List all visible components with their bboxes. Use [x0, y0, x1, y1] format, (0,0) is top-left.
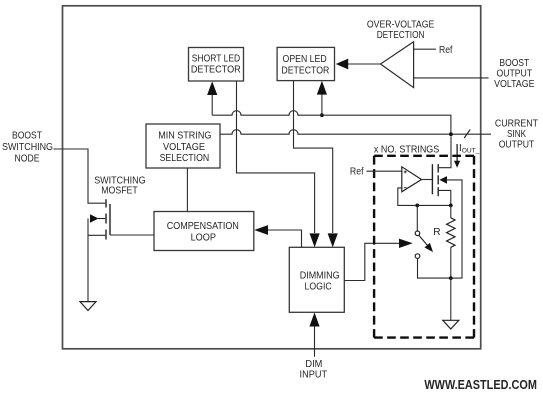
- svg-text:BOOST: BOOST: [499, 58, 529, 69]
- node sense node dots: [415, 204, 419, 208]
- svg-text:OVER-VOLTAGE: OVER-VOLTAGE: [367, 20, 435, 31]
- svg-text:OPEN LED: OPEN LED: [283, 54, 327, 65]
- wire Q2 source down to sense node: [439, 190, 451, 205]
- bus-width slash on current sink output: [464, 130, 470, 139]
- ground (current sink cell): [443, 320, 459, 329]
- wire Q1 gate to compensation loop: [110, 234, 154, 236]
- svg-text:MIN STRING: MIN STRING: [158, 131, 211, 142]
- svg-text:MOSFET: MOSFET: [101, 185, 138, 196]
- node junction dot on upper bus at open LED input: [320, 113, 324, 117]
- label switching mosfet: [94, 175, 145, 196]
- wire upper bus (current sink sense) with hops: [212, 111, 451, 134]
- svg-text:DETECTION: DETECTION: [377, 30, 425, 41]
- label Iout with arrow: [456, 144, 458, 162]
- wire Ref to op-amp + input: [367, 170, 402, 172]
- wire open LED detector output (down to dimming logic): [294, 81, 333, 233]
- wire min string selection to compensation loop: [186, 168, 188, 212]
- node junction dot current sink: [449, 132, 453, 136]
- label DIM input: [300, 359, 328, 380]
- block: compensation loop: [154, 212, 254, 251]
- node bottom junction dot: [449, 276, 453, 280]
- svg-text:OUTPUT: OUTPUT: [496, 68, 532, 79]
- op-amp U2 current sink amplifier: [402, 167, 422, 192]
- Q1 substrate arrow: [98, 218, 105, 220]
- wire short LED detector input arrow (from upper bus): [211, 94, 213, 115]
- block: dimming logic: [289, 247, 344, 312]
- transistor Q2 current sink MOSFET: [432, 164, 438, 196]
- wire comparator output to open LED detector: [348, 63, 381, 65]
- svg-text:LOGIC: LOGIC: [304, 281, 331, 292]
- svg-text:VOLTAGE: VOLTAGE: [163, 142, 205, 153]
- svg-text:NODE: NODE: [15, 153, 40, 164]
- label current sink output: [495, 118, 538, 150]
- svg-text:INPUT: INPUT: [300, 369, 328, 380]
- block: short LED detector: [189, 48, 244, 82]
- svg-text:SELECTION: SELECTION: [160, 153, 210, 164]
- svg-text:DIMMING: DIMMING: [300, 270, 340, 281]
- wire op-amp output to Q2 gate: [422, 179, 433, 181]
- Q2 substrate arrow: [439, 176, 447, 184]
- svg-text:Ref: Ref: [350, 167, 364, 178]
- wire boost output voltage to comparator: [414, 77, 489, 79]
- wire open LED detector input arrow (from upper bus): [321, 94, 323, 115]
- wire short LED detector output (down to dimming logic): [237, 81, 315, 233]
- label boost output voltage: [494, 58, 534, 90]
- svg-text:WWW.EASTLED.COM: WWW.EASTLED.COM: [424, 377, 537, 392]
- svg-text:DETECTOR: DETECTOR: [191, 65, 241, 76]
- wire dimming logic to compensation loop (arrow left): [268, 230, 302, 247]
- wire op-amp feedback to sense node: [398, 188, 451, 206]
- svg-text:x NO. STRINGS: x NO. STRINGS: [374, 145, 440, 156]
- svg-text:BOOST: BOOST: [12, 131, 42, 142]
- svg-text:COMPENSATION: COMPENSATION: [167, 221, 239, 232]
- label boost switching node: [2, 131, 53, 165]
- wire boost switching node to MOSFET drain: [54, 149, 106, 203]
- op-amp input polarity marks: [404, 171, 407, 173]
- svg-text:DETECTOR: DETECTOR: [281, 66, 329, 77]
- wire DIM input arrow: [314, 326, 316, 357]
- wire dimming logic to current sink switch: [344, 243, 399, 280]
- outer IC boundary box: [63, 6, 481, 349]
- svg-text:R: R: [433, 227, 440, 238]
- switch S1 (dimming): [416, 205, 418, 231]
- block: min string voltage selection: [146, 124, 220, 168]
- op-amp U-OV over-voltage comparator: [381, 42, 414, 88]
- ground (switching mosfet source): [80, 302, 96, 311]
- wire to cell ground: [450, 278, 452, 320]
- wire Q2 drain up to current sink node: [439, 136, 451, 167]
- svg-text:CURRENT: CURRENT: [495, 118, 538, 129]
- transistor Q1 switching MOSFET: [106, 199, 110, 239]
- svg-text:OUTPUT: OUTPUT: [499, 140, 535, 151]
- svg-text:Ref: Ref: [439, 45, 453, 56]
- label over-voltage detection: [367, 20, 435, 42]
- wire Q1 source to ground: [87, 219, 89, 302]
- svg-text:LOOP: LOOP: [191, 232, 217, 243]
- dashed current-sink cell boundary: [374, 156, 474, 338]
- svg-text:VOLTAGE: VOLTAGE: [494, 79, 534, 90]
- svg-text:SHORT LED: SHORT LED: [192, 53, 240, 64]
- svg-text:SINK: SINK: [507, 129, 526, 140]
- svg-text:SWITCHING: SWITCHING: [2, 142, 53, 153]
- wire lower bus from min string box to current sink output: [220, 130, 491, 135]
- wire Ref input to comparator: [414, 48, 436, 50]
- resistor R: [450, 205, 452, 218]
- block: open LED detector: [277, 47, 334, 80]
- arrowhead into open LED detector right edge: [336, 59, 348, 70]
